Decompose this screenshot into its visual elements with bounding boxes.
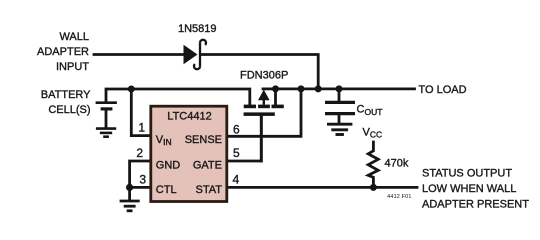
wire battery rail to MOSFET source <box>106 89 250 105</box>
battery B1 plates <box>96 103 117 109</box>
wire mosfet drain stub <box>274 89 277 105</box>
wire STAT pin4 to status output <box>227 186 417 189</box>
node sense junction <box>298 85 305 92</box>
svg-text:ADAPTER: ADAPTER <box>37 46 89 58</box>
node CTL/GND junction <box>126 184 133 191</box>
node STAT junction <box>370 184 377 191</box>
svg-text:FDN306P: FDN306P <box>240 70 288 82</box>
svg-text:5: 5 <box>233 146 240 160</box>
wire mosfet gate lead <box>260 116 263 161</box>
node junction dots <box>126 85 377 191</box>
source contact bar <box>244 105 256 109</box>
wire battery negative to ground <box>105 111 108 128</box>
body contact bar <box>258 105 270 109</box>
wire COUT top stub <box>338 89 341 101</box>
svg-text:1: 1 <box>138 121 145 135</box>
node mosfet drain junction <box>272 85 279 92</box>
wire diode cathode to top-right corner, down to rail <box>202 55 318 90</box>
svg-text:6: 6 <box>233 123 240 137</box>
diode D1 1N5819 schottky <box>184 45 198 65</box>
svg-text:GATE: GATE <box>193 159 222 171</box>
gate bar <box>244 112 275 116</box>
node diode junction <box>315 85 322 92</box>
svg-text:INPUT: INPUT <box>56 61 89 73</box>
svg-text:4412 F01: 4412 F01 <box>387 194 412 200</box>
wire wall adapter input to diode anode <box>94 53 184 56</box>
svg-text:SENSE: SENSE <box>185 134 222 146</box>
svg-text:STATUS OUTPUT: STATUS OUTPUT <box>422 168 512 180</box>
svg-text:CELL(S): CELL(S) <box>48 104 90 116</box>
wire mosfet body to drain <box>263 88 276 91</box>
transistor Q1 FDN306P p-mosfet <box>244 90 284 116</box>
svg-text:BATTERY: BATTERY <box>41 89 91 101</box>
wire rail from mosfet drain to load <box>276 88 415 91</box>
wire GND pin2 to CTL pin3 to ground <box>130 161 151 200</box>
svg-text:GND: GND <box>156 159 181 171</box>
svg-text:LTC4412: LTC4412 <box>167 111 211 123</box>
svg-text:LOW WHEN WALL: LOW WHEN WALL <box>422 183 516 195</box>
wire GATE pin5 up to mosfet gate <box>227 116 261 161</box>
svg-text:4: 4 <box>233 172 240 186</box>
svg-text:STAT: STAT <box>196 184 223 196</box>
svg-text:2: 2 <box>136 146 143 160</box>
capacitor COUT plates <box>325 102 355 113</box>
wire VIN branch: junction down to pin1 <box>131 89 151 136</box>
body arrow <box>258 90 270 101</box>
drain contact bar <box>272 105 284 109</box>
ground battery <box>96 129 116 137</box>
svg-text:ADAPTER PRESENT: ADAPTER PRESENT <box>422 198 529 210</box>
diode cathode schottky bar <box>200 40 206 45</box>
wire CTL pin3 <box>130 186 151 189</box>
svg-text:3: 3 <box>139 172 146 186</box>
svg-text:TO LOAD: TO LOAD <box>419 84 467 96</box>
ground CTL/GND pins <box>120 201 140 211</box>
wire COUT bottom stub to ground <box>338 115 341 123</box>
resistor R1 470k zigzag <box>368 142 378 187</box>
IC U1 LTC4412 body <box>151 106 227 201</box>
svg-text:470k: 470k <box>385 158 409 170</box>
ground COUT <box>327 124 352 134</box>
svg-text:CTL: CTL <box>156 184 177 196</box>
wire SENSE pin6 up to rail <box>227 89 301 136</box>
svg-text:WALL: WALL <box>59 31 89 43</box>
svg-text:1N5819: 1N5819 <box>178 23 217 35</box>
node VIN junction <box>128 86 135 93</box>
node COUT junction <box>336 85 343 92</box>
